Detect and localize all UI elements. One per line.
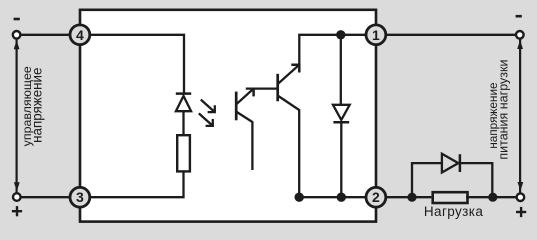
external diode VD2 triangle — [442, 154, 458, 173]
light emission arrow lower — [199, 113, 213, 126]
wire: LED to resistor R1 — [182, 111, 184, 135]
load resistor — [433, 192, 468, 203]
wire: resistor R1 down and left to pin 3 — [90, 171, 184, 197]
svg-text:напряжение: напряжение — [30, 68, 45, 143]
minus sign right — [516, 15, 522, 18]
light emission arrow upper — [201, 100, 215, 113]
pin 3 — [70, 187, 90, 207]
svg-text:4: 4 — [76, 27, 84, 43]
wire: external diode to right junction — [460, 163, 492, 197]
diode VD1 cathode bar — [333, 121, 349, 124]
label напряжение питания нагрузки — [486, 60, 510, 160]
bottom rail wire to pin 2 — [299, 196, 367, 198]
svg-text:Нагрузка: Нагрузка — [424, 204, 483, 219]
svg-text:2: 2 — [372, 189, 380, 205]
phototransistor Q1 emitter with arrow to Q2 base — [237, 89, 278, 104]
wire: diode VD1 to bottom rail — [340, 122, 342, 197]
junction dot left of load — [407, 193, 416, 202]
LED D1 cathode bar — [176, 92, 191, 95]
wire: load resistor to right bottom terminal — [466, 196, 516, 198]
junction dot Q2 collector — [295, 193, 304, 202]
junction dot top rail — [336, 30, 345, 39]
pin 1 — [366, 25, 386, 45]
terminal right top — [516, 31, 524, 39]
wire: pin 1 to right top terminal — [387, 34, 517, 36]
junction dot VD1 bottom — [337, 193, 346, 202]
terminal left top — [13, 31, 21, 39]
left source line with arrows — [14, 39, 20, 194]
device body (optocoupler relay box) — [80, 10, 376, 222]
svg-text:питания нагрузки: питания нагрузки — [496, 60, 510, 160]
wire: left top terminal to pin 4 — [21, 34, 71, 36]
pin 2 — [366, 187, 386, 207]
terminal left bottom — [13, 193, 21, 201]
svg-text:1: 1 — [372, 27, 380, 43]
wire: Q2 emitter up to top rail and to pin 1 — [299, 35, 367, 65]
right source line with arrows — [517, 39, 523, 194]
resistor R1 — [177, 135, 190, 171]
transistor Q2 emitter with arrow — [278, 65, 299, 84]
wire: external diode branch — [412, 163, 442, 197]
wire: pin 2 to load junction — [387, 196, 413, 198]
pin 4 — [70, 25, 90, 45]
wire: diode VD1 branch from top rail — [340, 35, 342, 105]
plus sign right — [516, 207, 526, 217]
diode VD1 triangle — [333, 105, 350, 120]
wire: Q2 collector down to bottom rail — [278, 96, 299, 197]
wire: left bottom terminal to pin 3 — [21, 196, 69, 198]
terminal right bottom — [517, 193, 525, 201]
svg-text:3: 3 — [76, 189, 84, 205]
phototransistor Q1 collector stub — [237, 112, 253, 170]
plus sign left — [12, 206, 22, 216]
wire: junction to load resistor — [412, 196, 431, 198]
label управляющее напряжение — [20, 66, 45, 146]
LED D1 triangle — [176, 96, 191, 111]
minus sign left — [14, 18, 20, 21]
external diode VD2 cathode bar — [459, 154, 462, 172]
phototransistor Q1 base bar — [235, 92, 238, 121]
junction dot right of load — [488, 193, 497, 202]
transistor Q2 base bar — [276, 74, 279, 102]
wire: pin 4 to LED branch (right then down) — [90, 35, 184, 93]
